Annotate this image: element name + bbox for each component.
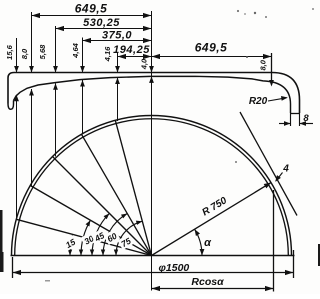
dimension 194,25 [118, 56, 152, 58]
svg-text:4: 4 [282, 164, 289, 175]
part inner surface curve [14, 76, 291, 113]
left edge bottom hook [8, 101, 14, 110]
radial line 30 deg [30, 186, 151, 256]
angle dimension arc 60 deg [103, 214, 127, 256]
svg-text:5,68: 5,68 [38, 44, 47, 59]
angle dimension arc 30 deg [81, 220, 90, 255]
extension line and height dim 4,16 at x=117.5 [117, 53, 119, 73]
R750 construction semicircle outer arc [12, 116, 292, 256]
extension line and height dim 5,68 at x=55.5 [55, 26, 57, 73]
svg-text:8,0: 8,0 [259, 59, 268, 70]
svg-text:8: 8 [303, 113, 309, 124]
part outer surface (datum top line, right corner, flange) [8, 73, 300, 114]
angle label 30 [80, 231, 97, 247]
angle label 60 [103, 229, 120, 245]
svg-text:530,25: 530,25 [83, 17, 120, 29]
dimension 4 leader arrow [276, 173, 283, 182]
svg-text:15,6: 15,6 [5, 44, 14, 59]
dimension 375,0 [83, 40, 152, 42]
svg-text:φ1500: φ1500 [159, 262, 190, 274]
extension line and height dim 4,64 at x=82.5 [82, 38, 84, 73]
thickness dim line + arrows [279, 123, 291, 125]
vertical centreline [151, 11, 153, 291]
thickness ticks [290, 113, 292, 126]
radial line 60 deg [82, 134, 152, 255]
svg-text:α: α [204, 237, 212, 249]
radial line 45 deg [53, 157, 152, 256]
extension line and height dim 15,6 at x=16.5 [16, 38, 18, 73]
angle label 15 [62, 235, 79, 251]
radial line 15 deg [16, 219, 151, 255]
dimension 649.5 right [152, 56, 272, 58]
svg-text:R20: R20 [249, 96, 268, 107]
angle label 45 [91, 228, 108, 244]
R cos alpha dimension line [152, 288, 274, 290]
svg-text:4,16: 4,16 [103, 46, 112, 62]
R750 construction semicircle inner arc [15, 119, 289, 256]
scan specks [246, 56, 248, 58]
svg-text:4,64: 4,64 [71, 42, 80, 58]
dimension 530,25 [56, 28, 152, 30]
svg-text:649,5: 649,5 [75, 2, 108, 16]
extension line and height dim 8.0 right at x=271.5 [271, 53, 273, 84]
angle dimension arc 15 deg [70, 234, 73, 255]
radial line 75 deg [115, 120, 151, 255]
phi1500 extension lines [12, 257, 14, 278]
phi1500 dimension line [13, 272, 294, 274]
extension line and height dim 8,0 at x=31.5 [31, 12, 33, 73]
tangent point projection extension line [273, 190, 275, 292]
baseline (horizontal axis through centre) [11, 255, 295, 257]
svg-text:375,0: 375,0 [102, 30, 132, 42]
phi1500 label [157, 261, 194, 272]
scan artifact right edge streak [318, 244, 320, 266]
svg-text:Rcosα: Rcosα [191, 276, 224, 288]
angle dimension arc 75 deg [116, 221, 142, 255]
tangent line at tangency point [240, 112, 297, 216]
R20 leader [268, 98, 287, 101]
svg-text:649,5: 649,5 [195, 41, 228, 55]
angle dimension arc 45 deg [92, 213, 109, 255]
alpha angle arc [195, 229, 202, 255]
svg-text:194,25: 194,25 [113, 44, 150, 56]
dimension 649,5 [32, 15, 152, 17]
scan artifact left edge streak [0, 210, 3, 258]
R750 radius line [152, 183, 272, 256]
angle label 75 [117, 234, 134, 250]
svg-text:4,0: 4,0 [140, 58, 149, 70]
height dim 4.0 at centreline [149, 66, 154, 73]
svg-text:8,0: 8,0 [20, 48, 29, 59]
flange bottom edge [291, 113, 300, 115]
